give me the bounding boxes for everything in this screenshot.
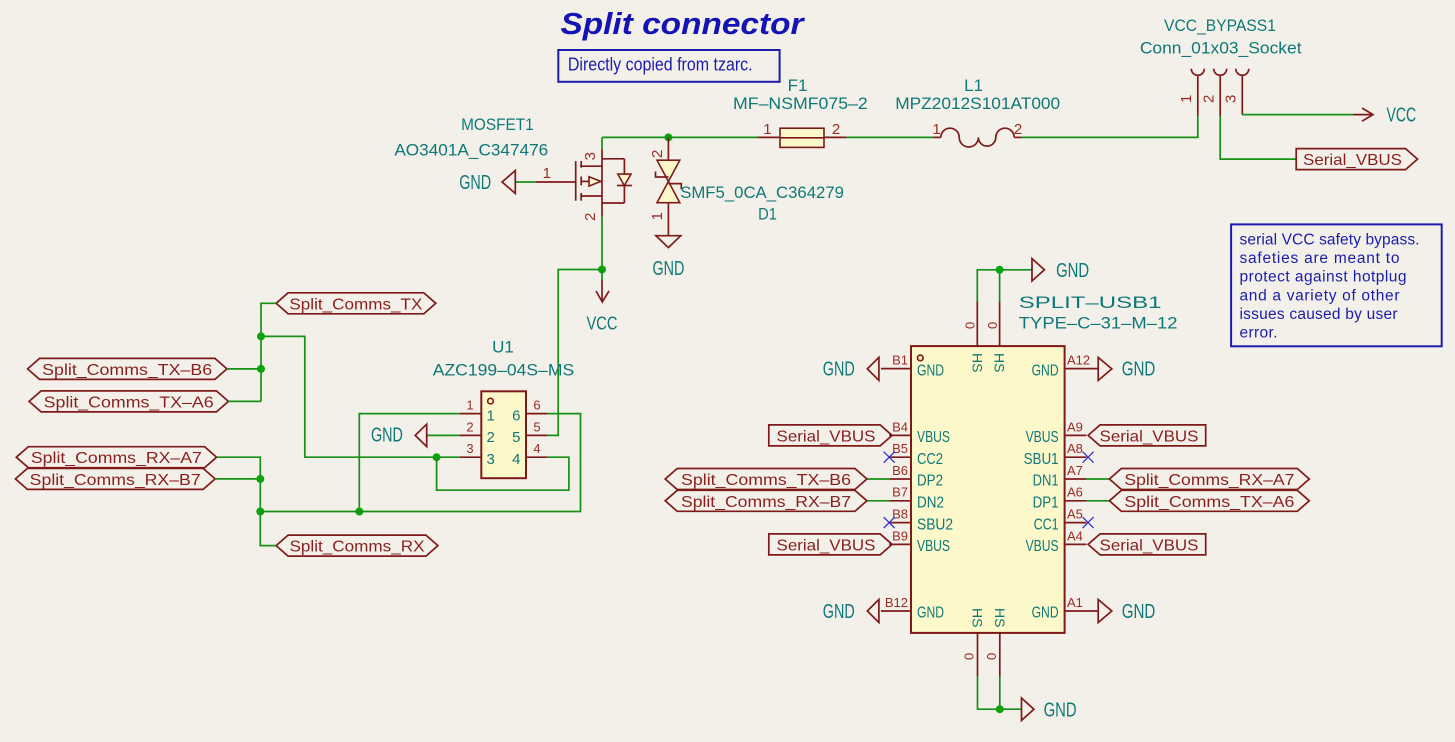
wire pin3 to VCC <box>1242 114 1353 116</box>
svg-text:0: 0 <box>985 322 1000 329</box>
svg-text:protect against hotplug: protect against hotplug <box>1240 269 1407 286</box>
USB pin A5 no-connect <box>1034 507 1094 534</box>
svg-text:Split_Comms_TX: Split_Comms_TX <box>289 296 422 313</box>
USB pin B8 no-connect <box>884 507 953 534</box>
USB pin A9 <box>1026 419 1087 446</box>
svg-text:VCC: VCC <box>1387 105 1417 127</box>
global label Serial_VBUS A9 <box>1088 425 1206 446</box>
svg-text:HS: HS <box>992 608 1008 627</box>
USB pin B12 <box>881 595 944 622</box>
svg-text:0: 0 <box>962 653 977 660</box>
svg-text:GND: GND <box>1032 362 1059 379</box>
svg-text:GND: GND <box>371 425 403 447</box>
svg-text:Serial_VBUS: Serial_VBUS <box>1303 152 1402 169</box>
wire L1 to socket pin1 <box>1022 116 1198 138</box>
global label Split_Comms_RX-B7 <box>15 468 215 489</box>
USB pin A8 no-connect <box>1024 441 1094 468</box>
sheet title text <box>561 6 806 41</box>
svg-text:A8: A8 <box>1067 441 1083 456</box>
svg-text:GND: GND <box>823 359 855 381</box>
svg-text:GND: GND <box>1044 700 1077 722</box>
pin 3 number <box>582 152 599 160</box>
svg-text:DN2: DN2 <box>917 495 944 512</box>
svg-text:5: 5 <box>533 419 540 434</box>
svg-text:B8: B8 <box>892 507 908 522</box>
svg-text:B6: B6 <box>892 463 908 478</box>
svg-text:D1: D1 <box>758 205 777 224</box>
pin 1 number <box>543 165 551 182</box>
wire RX-A7 to vertical <box>217 457 277 545</box>
svg-text:VBUS: VBUS <box>1026 538 1059 555</box>
USB pin A12 <box>1032 353 1099 380</box>
svg-text:6: 6 <box>512 407 520 424</box>
svg-text:A4: A4 <box>1067 528 1083 543</box>
svg-text:2: 2 <box>832 121 840 138</box>
svg-text:GND: GND <box>1056 260 1089 282</box>
svg-text:B4: B4 <box>892 419 908 434</box>
wire VCC node to U1 pin5 <box>548 270 602 436</box>
text box: Directly copied from tzarc. <box>558 50 779 82</box>
svg-text:VBUS: VBUS <box>917 429 950 446</box>
svg-text:MF–NSMF075–2: MF–NSMF075–2 <box>733 94 868 113</box>
svg-text:2: 2 <box>649 150 666 158</box>
wire U1 pin1 to bus <box>359 414 459 512</box>
svg-text:2: 2 <box>1200 95 1217 103</box>
USB pin B7 <box>867 485 944 512</box>
connector VCC_BYPASS1 pin 2 <box>1200 69 1226 116</box>
svg-text:error.: error. <box>1240 325 1278 342</box>
diode D1 TVS <box>656 137 682 235</box>
svg-text:Serial_VBUS: Serial_VBUS <box>1100 537 1199 554</box>
wire pin2 to Serial_VBUS <box>1220 116 1296 160</box>
connector SPLIT-USB1 labels <box>1019 293 1178 333</box>
svg-text:HS: HS <box>969 353 985 372</box>
svg-text:GND: GND <box>459 172 491 194</box>
note box: serial VCC safety bypass <box>1231 224 1442 346</box>
junction TX branch <box>257 332 265 340</box>
connector SPLIT-USB1 body <box>911 346 1065 633</box>
svg-text:VCC_BYPASS1: VCC_BYPASS1 <box>1164 16 1276 35</box>
power symbol VCC right <box>1353 105 1416 127</box>
power symbol VCC <box>587 270 618 334</box>
USB pin A7 <box>1033 463 1110 490</box>
connector VCC_BYPASS1 labels <box>1140 16 1302 58</box>
wire TX branch to U1 pin3 column <box>261 336 460 457</box>
svg-text:0: 0 <box>984 653 999 660</box>
op-amp U1 labels <box>433 338 575 380</box>
USB pin B6 <box>867 463 943 490</box>
wire pin3 loop to pin4 <box>437 457 569 490</box>
wire top HS to GND <box>977 270 1032 302</box>
svg-text:VBUS: VBUS <box>917 538 950 555</box>
junction D1 top <box>664 133 672 141</box>
svg-text:3: 3 <box>487 451 495 468</box>
global label Split_Comms_RX-A7 <box>16 447 216 468</box>
U1 pin 1 <box>460 398 495 425</box>
U1 pin 5 <box>512 419 548 446</box>
svg-text:and a variety of other: and a variety of other <box>1240 287 1400 304</box>
fuse F1 <box>733 76 868 147</box>
global label Serial_VBUS A4 <box>1088 534 1206 555</box>
ground symbol B12 <box>823 600 879 623</box>
svg-text:Serial_VBUS: Serial_VBUS <box>1100 428 1199 445</box>
USB pin A6 <box>1033 485 1110 512</box>
svg-text:VCC: VCC <box>587 314 618 334</box>
svg-text:VBUS: VBUS <box>1026 429 1059 446</box>
svg-text:TYPE–C–31–M–12: TYPE–C–31–M–12 <box>1019 314 1178 333</box>
USB bottom HS pins <box>962 608 1008 677</box>
svg-text:1: 1 <box>763 121 771 138</box>
junction RX-B7 <box>256 475 264 483</box>
global label Split_Comms_RX-A7 at USB <box>1109 469 1309 490</box>
wire RX bus to pin6 <box>260 414 580 512</box>
USB pin B5 no-connect <box>884 441 943 468</box>
svg-text:SPLIT–USB1: SPLIT–USB1 <box>1019 293 1162 312</box>
USB pin B9 <box>889 528 950 555</box>
svg-text:serial VCC safety bypass.: serial VCC safety bypass. <box>1240 232 1420 249</box>
svg-text:issues caused by user: issues caused by user <box>1240 306 1398 323</box>
wire RX-B7 <box>215 478 260 480</box>
global label Split_Comms_RX <box>276 535 438 556</box>
svg-text:4: 4 <box>533 441 540 456</box>
svg-text:A1: A1 <box>1067 595 1083 610</box>
svg-text:1: 1 <box>466 398 473 413</box>
global label Split_Comms_TX-B6 <box>28 358 227 379</box>
svg-text:1: 1 <box>487 407 495 424</box>
svg-text:GND: GND <box>1032 605 1059 622</box>
wire gate to GND <box>515 181 575 183</box>
svg-text:HS: HS <box>970 608 986 627</box>
U1 pin 3 <box>460 441 495 468</box>
ground symbol top <box>1032 259 1089 282</box>
svg-text:3: 3 <box>1223 95 1240 103</box>
U1 pin 4 <box>512 441 548 468</box>
svg-text:5: 5 <box>512 429 520 446</box>
ground symbol below D1 <box>652 236 684 280</box>
svg-text:B9: B9 <box>892 528 908 543</box>
svg-text:6: 6 <box>533 398 540 413</box>
global label Serial_VBUS B4 <box>769 425 892 446</box>
connector VCC_BYPASS1 pin 3 <box>1223 69 1249 115</box>
wire F1 to L1 <box>847 136 935 138</box>
svg-text:Serial_VBUS: Serial_VBUS <box>777 537 876 554</box>
svg-text:Split_Comms_TX–A6: Split_Comms_TX–A6 <box>1124 494 1294 511</box>
svg-text:HS: HS <box>992 353 1008 372</box>
global label Split_Comms_TX-B6 at USB <box>665 469 867 490</box>
global label Split_Comms_TX-A6 at USB <box>1109 490 1309 511</box>
svg-text:A7: A7 <box>1067 463 1083 478</box>
svg-text:Split_Comms_RX: Split_Comms_RX <box>290 539 425 556</box>
svg-text:Split_Comms_TX–B6: Split_Comms_TX–B6 <box>42 362 212 379</box>
global label Serial_VBUS B9 <box>769 534 892 555</box>
wire MOSFET source down <box>601 217 603 270</box>
svg-text:AZC199–04S–MS: AZC199–04S–MS <box>433 360 575 379</box>
svg-text:1: 1 <box>1178 95 1195 103</box>
svg-text:2: 2 <box>582 213 599 221</box>
U1 pin 6 <box>512 398 548 425</box>
svg-text:B7: B7 <box>892 485 908 500</box>
svg-text:DP2: DP2 <box>917 473 943 490</box>
svg-text:AO3401A_C347476: AO3401A_C347476 <box>394 141 548 160</box>
junction TX-B6 <box>257 365 265 373</box>
svg-text:Conn_01x03_Socket: Conn_01x03_Socket <box>1140 39 1302 58</box>
USB pin B1 <box>881 353 944 380</box>
global label Split_Comms_TX-A6 <box>29 391 228 412</box>
svg-text:3: 3 <box>466 441 473 456</box>
transistor Q MOSFET1 symbol <box>576 137 632 216</box>
svg-text:3: 3 <box>582 152 599 160</box>
ground symbol B1 <box>823 357 879 380</box>
svg-text:2: 2 <box>1014 121 1022 138</box>
D1 pin 1 number <box>649 212 666 220</box>
svg-text:GND: GND <box>823 601 855 623</box>
ground symbol at U1 pin2 <box>371 424 460 446</box>
junction VCC node <box>598 266 606 274</box>
ground symbol A1 <box>1098 600 1155 623</box>
wire TX-B6 <box>227 368 261 370</box>
svg-text:A9: A9 <box>1067 419 1083 434</box>
svg-text:Split_Comms_TX–A6: Split_Comms_TX–A6 <box>44 394 214 411</box>
svg-text:MPZ2012S101AT000: MPZ2012S101AT000 <box>895 94 1060 113</box>
svg-text:SBU1: SBU1 <box>1024 451 1059 468</box>
pin 2 number <box>582 213 599 221</box>
wire TX-A6 <box>228 400 261 402</box>
svg-text:F1: F1 <box>788 76 808 95</box>
svg-text:DP1: DP1 <box>1033 495 1059 512</box>
svg-text:Split_Comms_RX–A7: Split_Comms_RX–A7 <box>31 450 202 467</box>
svg-text:CC1: CC1 <box>1034 516 1059 533</box>
junction bottom GND <box>996 705 1004 713</box>
svg-text:SMF5_0CA_C364279: SMF5_0CA_C364279 <box>680 183 844 202</box>
svg-text:1: 1 <box>543 165 551 182</box>
svg-text:GND: GND <box>1122 359 1156 381</box>
svg-text:Serial_VBUS: Serial_VBUS <box>777 428 876 445</box>
USB pin A4 <box>1026 528 1087 555</box>
svg-text:A5: A5 <box>1067 507 1083 522</box>
transistor MOSFET1 label <box>394 115 548 160</box>
op-amp U1 body <box>481 391 526 478</box>
svg-text:GND: GND <box>1122 601 1156 623</box>
svg-text:B1: B1 <box>892 353 908 368</box>
D1 pin 2 number <box>649 150 666 158</box>
inductor L1 <box>895 76 1060 147</box>
svg-text:0: 0 <box>963 322 978 329</box>
svg-text:GND: GND <box>652 258 684 280</box>
wire bottom HS to GND <box>978 677 1022 709</box>
svg-text:safeties are meant to: safeties are meant to <box>1240 250 1400 267</box>
svg-text:2: 2 <box>466 419 473 434</box>
svg-text:Split_Comms_RX–B7: Split_Comms_RX–B7 <box>681 494 851 511</box>
connector VCC_BYPASS1 pin 1 <box>1178 69 1204 116</box>
USB pin B4 <box>889 419 950 446</box>
svg-text:Directly copied from tzarc.: Directly copied from tzarc. <box>568 55 753 75</box>
D1 value label <box>680 183 844 224</box>
junction top GND <box>996 266 1004 274</box>
svg-text:U1: U1 <box>492 338 514 357</box>
USB pin A1 <box>1032 595 1099 622</box>
USB top HS pins <box>963 302 1008 373</box>
global label Split_Comms_TX <box>276 293 436 314</box>
ground symbol at gate <box>459 171 515 195</box>
junction RX bus <box>256 508 264 516</box>
svg-text:B12: B12 <box>885 595 908 610</box>
svg-text:A12: A12 <box>1067 353 1090 368</box>
svg-text:MOSFET1: MOSFET1 <box>461 115 534 134</box>
svg-text:1: 1 <box>649 212 666 220</box>
junction U1 pin3 <box>433 453 441 461</box>
wire TX label to vertical <box>261 303 276 401</box>
global label Serial_VBUS top right <box>1296 149 1417 170</box>
junction pin1 bus <box>355 508 363 516</box>
ground symbol A12 <box>1098 357 1155 380</box>
svg-text:A6: A6 <box>1067 485 1083 500</box>
svg-text:CC2: CC2 <box>917 451 943 468</box>
global label Split_Comms_RX-B7 at USB <box>665 490 867 511</box>
svg-text:4: 4 <box>512 451 520 468</box>
svg-text:SBU2: SBU2 <box>917 516 953 533</box>
svg-text:2: 2 <box>487 429 495 446</box>
svg-text:Split_Comms_RX–A7: Split_Comms_RX–A7 <box>1124 472 1294 489</box>
svg-text:1: 1 <box>932 121 940 138</box>
U1 pin 2 <box>460 419 495 446</box>
svg-text:Split_Comms_TX–B6: Split_Comms_TX–B6 <box>681 472 851 489</box>
ground symbol bottom <box>1022 698 1077 722</box>
svg-text:B5: B5 <box>892 441 908 456</box>
svg-text:GND: GND <box>917 605 944 622</box>
svg-text:Split connector: Split connector <box>561 6 806 41</box>
svg-text:Split_Comms_RX–B7: Split_Comms_RX–B7 <box>30 472 201 489</box>
svg-text:GND: GND <box>917 362 944 379</box>
svg-text:L1: L1 <box>964 76 983 95</box>
svg-text:DN1: DN1 <box>1033 473 1059 490</box>
wire main VBUS rail left <box>602 136 758 138</box>
